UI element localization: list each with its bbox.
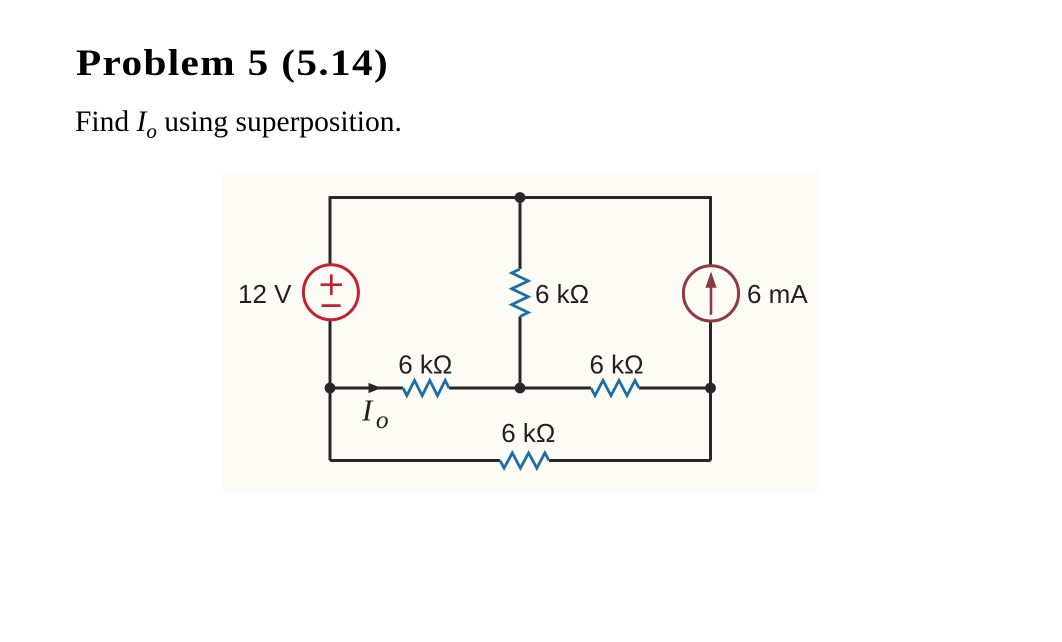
resistor 6k middle-right horizontal bbox=[591, 380, 639, 395]
svg-text:6 kΩ: 6 kΩ bbox=[501, 418, 555, 448]
wire: right rail upper segment (top-right corner to current source) bbox=[709, 196, 712, 265]
node: middle-left bbox=[325, 383, 336, 394]
wire: right rail lower segment (current source to bottom-right corner) bbox=[709, 322, 712, 461]
wire: middle rail upper segment (top node to 6k resistor) bbox=[519, 196, 522, 269]
svg-text:6 kΩ: 6 kΩ bbox=[589, 350, 643, 380]
current arrow Io on middle wire bbox=[369, 383, 382, 393]
wire: middle horizontal, left node to left 6k resistor bbox=[330, 387, 403, 390]
resistor 6k middle-left horizontal bbox=[403, 380, 449, 395]
node: top middle bbox=[515, 192, 526, 203]
title: Problem 5 (5.14) bbox=[76, 41, 389, 84]
node: middle-center bbox=[515, 383, 526, 394]
resistor 6k bottom horizontal bbox=[500, 453, 549, 468]
wire: middle horizontal, right 6k resistor to right node bbox=[639, 387, 711, 390]
svg-text:12 V: 12 V bbox=[238, 279, 292, 309]
svg-text:6 kΩ: 6 kΩ bbox=[535, 279, 589, 309]
problem statement bbox=[75, 106, 402, 144]
wire: top rail from top-left corner to top-right corner bbox=[330, 196, 711, 199]
wire: left rail lower segment (voltage source to bottom-left corner) bbox=[329, 321, 332, 461]
wire: middle rail lower segment (6k resistor to middle node) bbox=[519, 317, 522, 390]
node: middle-right bbox=[705, 383, 716, 394]
wire: middle horizontal, left 6k resistor to center node bbox=[449, 387, 591, 390]
svg-text:6 mA: 6 mA bbox=[747, 279, 808, 309]
resistor 6k middle vertical bbox=[512, 269, 529, 317]
wire: bottom rail left of bottom resistor bbox=[330, 459, 500, 462]
circuit figure background bbox=[222, 172, 819, 491]
current source I 6mA (circle with up arrow) bbox=[683, 266, 738, 321]
wire: bottom rail right of bottom resistor bbox=[549, 459, 711, 462]
svg-text:6 kΩ: 6 kΩ bbox=[398, 350, 452, 380]
voltage source V 12V (circle with plus/minus) bbox=[303, 265, 358, 320]
wire: left rail upper segment (top-left corner down to voltage source) bbox=[329, 196, 332, 264]
